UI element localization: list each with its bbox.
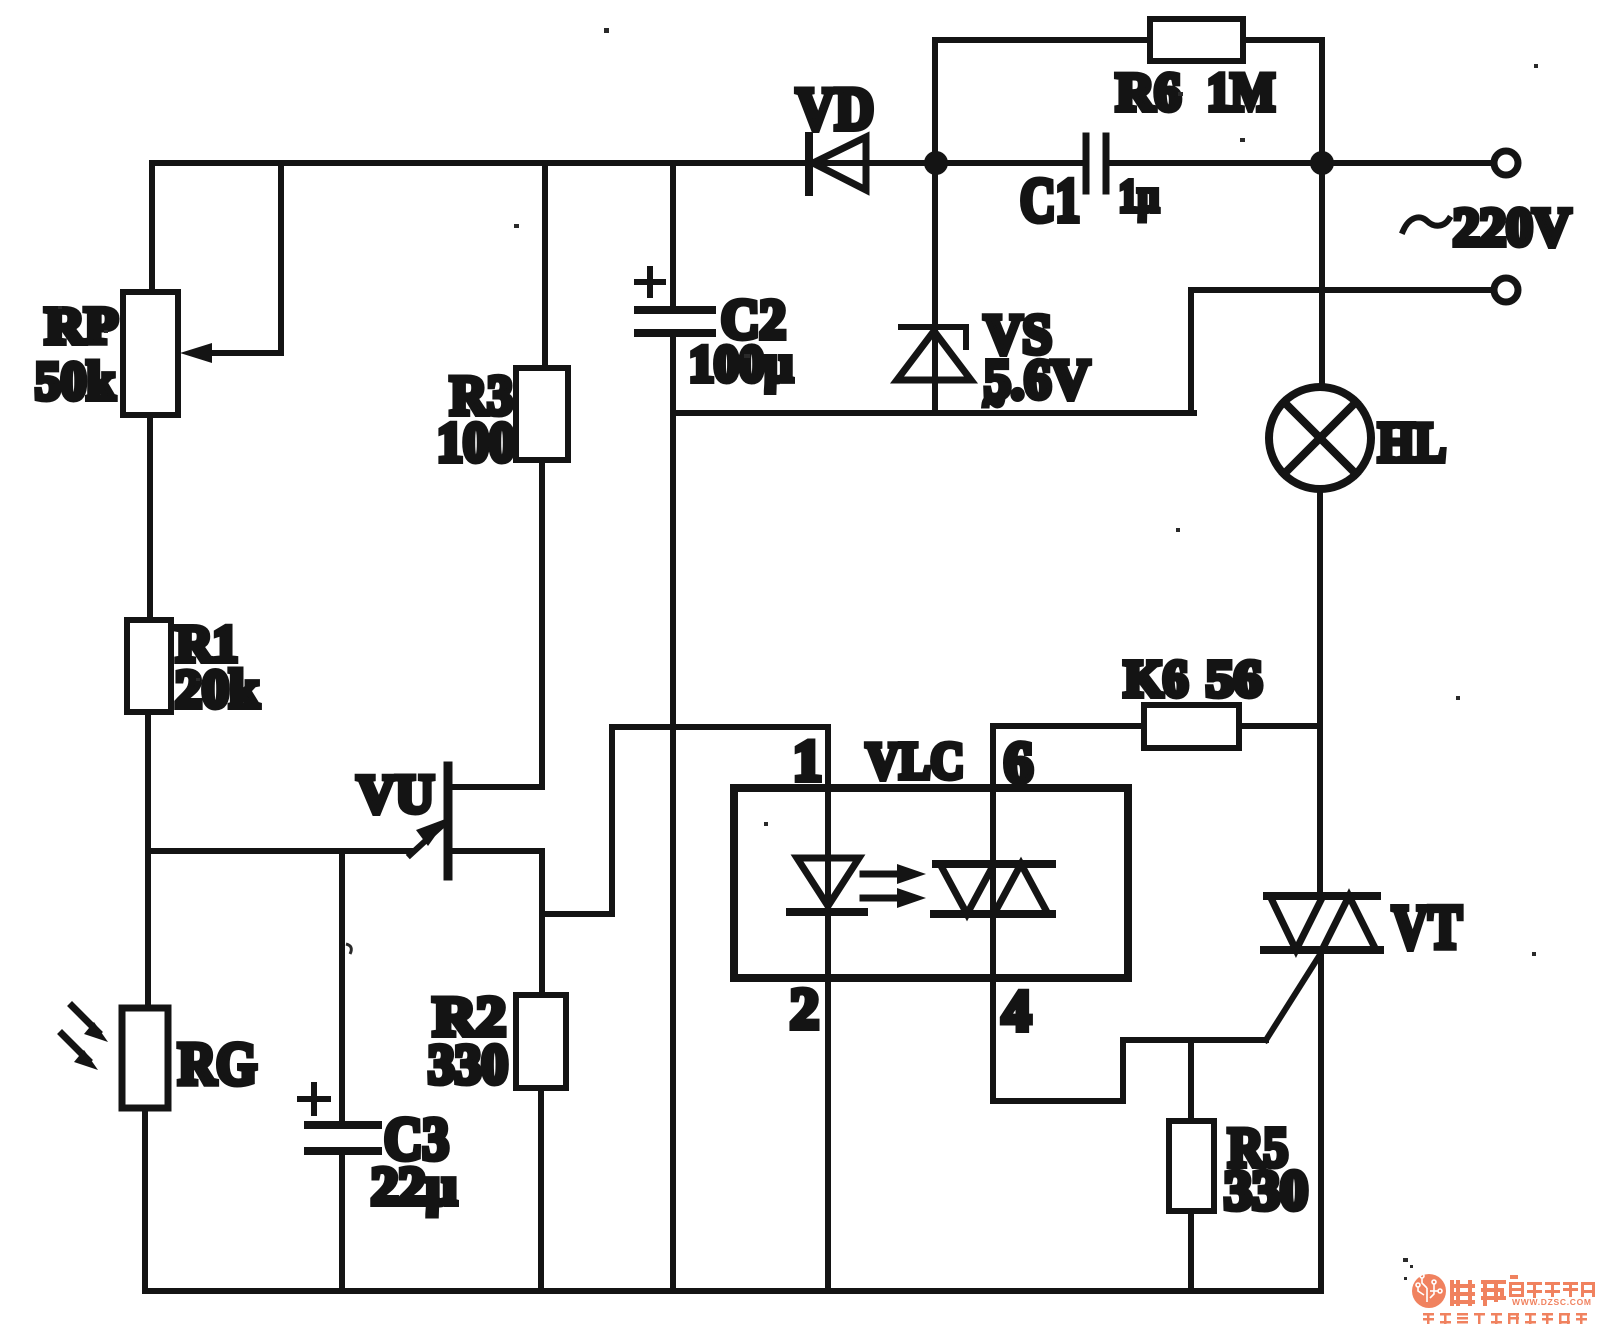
wire mid rail (C2 bottom to 220V return) bbox=[673, 410, 1194, 416]
resistor R1 body bbox=[127, 620, 171, 712]
wire 220V terminal 2 return bbox=[1191, 290, 1492, 413]
wire RP wiper feed from top rail bbox=[198, 166, 281, 353]
RG light arrow 1 bbox=[72, 1006, 98, 1032]
wire R6 56 left lead to pin 6 bbox=[993, 726, 1144, 788]
svg-text:1M: 1M bbox=[1207, 62, 1275, 122]
watermark text 专业电子元器件交易网站 (simulated glyphs) bbox=[1423, 1313, 1587, 1324]
watermark logo circle bbox=[1412, 1274, 1446, 1308]
potentiometer RP body bbox=[123, 292, 178, 415]
svg-text:330: 330 bbox=[1224, 1160, 1308, 1222]
svg-text:4: 4 bbox=[1002, 978, 1031, 1043]
resistor R2 body bbox=[516, 995, 566, 1088]
wire triac VT gate diagonal bbox=[1266, 953, 1321, 1040]
VLC photo-triac bottom bar bbox=[934, 910, 1052, 918]
svg-text:RP: RP bbox=[45, 298, 118, 355]
svg-text:22µ: 22µ bbox=[371, 1156, 457, 1216]
wire R6 1M left lead bbox=[935, 37, 1150, 43]
220V terminal 2 circle bbox=[1494, 278, 1518, 302]
wire top rail left (RP top to C1 left plate) bbox=[152, 160, 1083, 166]
capacitor C2 plates bbox=[638, 306, 712, 314]
wire VU base2 to R3 bottom bbox=[452, 460, 542, 787]
svg-text:VLC: VLC bbox=[866, 733, 964, 790]
VLC photo-triac top bar bbox=[936, 860, 1052, 868]
optocoupler VLC box bbox=[734, 788, 1128, 978]
triac VT left triangle bbox=[1270, 896, 1323, 950]
wire R2 top lead bbox=[539, 914, 545, 995]
VU emitter arrowhead bbox=[416, 818, 448, 846]
capacitor C3 top lead bbox=[339, 851, 345, 1122]
resistor R3 body bbox=[516, 368, 568, 460]
wire VU emitter / R1-RG node horizontal bbox=[148, 848, 412, 854]
label ~220V bbox=[1403, 217, 1449, 231]
capacitor C2 top lead bbox=[670, 163, 676, 308]
svg-text:VU: VU bbox=[357, 764, 434, 824]
svg-text:VT: VT bbox=[1392, 894, 1462, 962]
lamp HL cross bbox=[1284, 402, 1356, 474]
capacitor C3 plates bbox=[308, 1121, 378, 1129]
watermark text 维库 (simulated glyphs) bbox=[1450, 1280, 1506, 1306]
svg-text:R6: R6 bbox=[1116, 62, 1181, 122]
wire junction down to VS bbox=[932, 163, 938, 413]
triac VT right triangle bbox=[1322, 896, 1376, 950]
lamp HL circle bbox=[1269, 387, 1371, 489]
svg-text:VD: VD bbox=[796, 76, 874, 142]
wire junction up to R6 left bbox=[932, 40, 938, 163]
C3 polarity plus bbox=[300, 1096, 328, 1102]
diode VD triangle bbox=[813, 137, 866, 190]
zener diode VS triangle bbox=[897, 331, 971, 380]
RG light arrow 2 bbox=[62, 1034, 88, 1060]
VLC LED triangle bbox=[797, 858, 859, 906]
transistor VU (UJT) bar bbox=[444, 766, 453, 876]
svg-text:220V: 220V bbox=[1453, 197, 1571, 257]
wire R2 bottom lead bbox=[538, 1088, 544, 1291]
wire RP bottom to R1 top bbox=[147, 415, 153, 620]
svg-text:1µ: 1µ bbox=[1119, 170, 1159, 221]
photoresistor RG body bbox=[122, 1008, 168, 1108]
watermark TM bbox=[1510, 1275, 1518, 1279]
diode VD cathode bar bbox=[805, 136, 813, 192]
wire VLC pin6-pin4 vertical (through photo-triac) bbox=[990, 788, 996, 1101]
capacitor C2 bottom lead down to ground rail bbox=[670, 333, 676, 1291]
resistor R6 56 body bbox=[1144, 705, 1239, 748]
wire R1 bottom to RG top bbox=[145, 712, 151, 1008]
wire R3 top to top rail bbox=[542, 163, 548, 368]
220V terminal 1 circle bbox=[1494, 151, 1518, 175]
VU emitter diagonal bbox=[410, 822, 446, 855]
svg-text:20k: 20k bbox=[175, 659, 259, 719]
svg-text:2: 2 bbox=[790, 976, 819, 1041]
wire left rail top (top rail down to RP) bbox=[149, 163, 155, 292]
VLC photo-triac left triangle bbox=[940, 864, 994, 914]
resistor R5 body bbox=[1169, 1121, 1214, 1211]
svg-text:56: 56 bbox=[1206, 651, 1262, 708]
wire HL bottom to triac VT bbox=[1317, 489, 1323, 896]
svg-text:50k: 50k bbox=[35, 351, 115, 411]
wire HL top (junction down to lamp) bbox=[1319, 163, 1325, 387]
zener diode VS cathode bar with hook bbox=[901, 327, 966, 347]
wire R6 56 right lead to HL/VT line bbox=[1239, 723, 1320, 729]
VLC LED cathode bar bbox=[790, 908, 864, 916]
C2 polarity plus bbox=[637, 279, 663, 285]
wire bottom rail bbox=[145, 1288, 1321, 1294]
svg-text:WWW.DZSC.COM: WWW.DZSC.COM bbox=[1512, 1297, 1592, 1307]
wire R5 bottom lead bbox=[1188, 1211, 1194, 1291]
wire pin4 to triac gate path bbox=[993, 1040, 1266, 1101]
svg-text:C1: C1 bbox=[1020, 167, 1080, 235]
wire R5 top lead bbox=[1188, 1040, 1194, 1121]
RP wiper arrowhead bbox=[180, 343, 212, 363]
VLC light arrow 2 bbox=[863, 895, 899, 902]
wire top rail right (C1 right plate to 220V terminal 1) bbox=[1109, 160, 1492, 166]
svg-text:HL: HL bbox=[1378, 412, 1446, 474]
wire VT bottom to ground rail bbox=[1318, 950, 1324, 1291]
wire VU base1 to LED feed bbox=[452, 727, 828, 914]
node A junction dot (VD-C1-R6-VS) bbox=[924, 151, 948, 175]
wire VLC pin1-pin2 vertical (through LED) bbox=[825, 727, 831, 1291]
svg-text:RG: RG bbox=[178, 1031, 257, 1097]
capacitor C1 plates bbox=[1083, 136, 1090, 191]
node B junction dot (top rail - HL branch) bbox=[1310, 151, 1334, 175]
watermark text 电子市场网 (simulated glyphs) bbox=[1509, 1282, 1595, 1298]
svg-text:100µ: 100µ bbox=[689, 336, 793, 393]
svg-text:K6: K6 bbox=[1124, 651, 1188, 708]
svg-text:~: ~ bbox=[984, 382, 1003, 422]
svg-text:100: 100 bbox=[437, 412, 515, 474]
svg-text:330: 330 bbox=[428, 1034, 508, 1096]
svg-text:1: 1 bbox=[793, 728, 822, 793]
resistor R6 1M body bbox=[1150, 19, 1243, 61]
triac VT top bar bbox=[1267, 892, 1377, 900]
wire RG bottom to ground rail bbox=[142, 1108, 148, 1291]
svg-text:6: 6 bbox=[1004, 730, 1033, 795]
wire R6 1M right lead bbox=[1243, 40, 1322, 163]
triac VT bottom bar bbox=[1264, 946, 1380, 954]
VLC photo-triac right triangle bbox=[994, 864, 1048, 914]
capacitor C3 bottom lead bbox=[339, 1151, 345, 1291]
VLC light arrow 1 bbox=[863, 871, 899, 878]
